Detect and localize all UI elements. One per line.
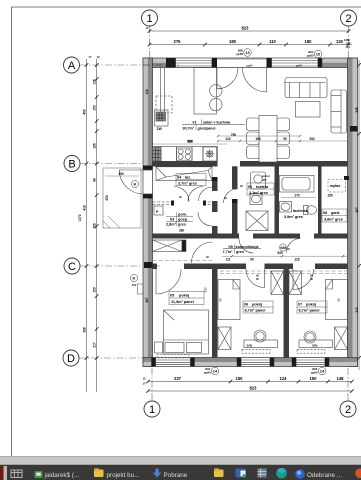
red window sliver <box>0 466 4 480</box>
svg-text:gres: gres <box>178 223 186 227</box>
interior wall V4 <box>318 166 322 238</box>
stool room07 <box>304 331 316 343</box>
left dim line outer <box>86 59 88 392</box>
top dim line segments <box>150 44 353 46</box>
svg-text:pp90: pp90 <box>311 370 318 374</box>
terrace <box>103 168 141 228</box>
wylaz hatch <box>328 180 346 193</box>
svg-text:180: 180 <box>229 39 237 44</box>
jamb blocks bottom wall <box>151 358 329 367</box>
grid line 2 top <box>348 26 350 60</box>
svg-text:110: 110 <box>132 283 137 287</box>
exterior wall left <box>143 58 153 367</box>
firefox icon <box>295 469 305 479</box>
svg-text:1: 1 <box>146 13 152 25</box>
DIMENSION CHAINS <box>87 31 360 392</box>
window tag circle top 2 <box>307 50 322 58</box>
door room07 <box>293 269 314 290</box>
grid line 2 bottom <box>347 368 349 401</box>
light window sliver <box>4 466 8 480</box>
folder icon 1 <box>94 468 104 477</box>
ticks right chain <box>357 63 361 67</box>
dining chairs left column <box>247 118 260 159</box>
K symbol terrace <box>131 180 138 187</box>
taskbar background <box>0 465 361 480</box>
svg-text:252: 252 <box>309 137 315 141</box>
svg-text:823: 823 <box>242 26 250 31</box>
door corridor to gard <box>287 239 301 253</box>
island stool 1 <box>210 85 222 97</box>
svg-text:2,8m²: 2,8m² <box>166 223 177 227</box>
radiator room07 dashed <box>297 350 325 354</box>
svg-text:450: 450 <box>82 109 86 115</box>
grid bubble 2 bottom <box>340 401 356 417</box>
svg-text:30: 30 <box>337 298 341 302</box>
svg-text:wyłaz: wyłaz <box>329 184 340 188</box>
svg-text:90: 90 <box>250 258 254 262</box>
kitchen island <box>194 68 217 115</box>
svg-text:368: 368 <box>82 327 86 333</box>
ticks left outer chain <box>85 63 89 67</box>
stool room06 <box>254 330 266 342</box>
svg-text:13: 13 <box>245 50 250 55</box>
svg-text:pokój: pokój <box>252 303 262 307</box>
label room06 <box>243 301 273 313</box>
svg-text:418: 418 <box>82 205 86 211</box>
coffee table <box>296 102 321 118</box>
label room02 <box>247 183 274 195</box>
svg-text:pom.: pom. <box>178 213 187 217</box>
label room04 <box>176 174 206 186</box>
window bottom strip <box>0 456 361 465</box>
svg-text:8,7m² panel: 8,7m² panel <box>299 309 320 313</box>
interior wall H1 right <box>240 161 348 167</box>
svg-text:363: 363 <box>187 140 193 144</box>
svg-text:jaidarek$ (...: jaidarek$ (... <box>44 472 80 479</box>
svg-text:8,7m² panel: 8,7m² panel <box>245 309 266 313</box>
window tag circle bottom 2 <box>311 367 326 375</box>
balcony door left leaf <box>217 68 238 89</box>
svg-text:124: 124 <box>280 376 288 381</box>
svg-text:2: 2 <box>345 404 351 416</box>
sofa 2-seat vertical <box>331 90 347 133</box>
window W1 top kitchen <box>176 58 213 67</box>
door codes <box>179 184 313 281</box>
svg-text:367: 367 <box>355 207 359 213</box>
grid line C <box>80 265 160 267</box>
wardrobe room06 <box>271 271 284 295</box>
kitchen sink <box>203 147 217 161</box>
INTERIOR DIMS <box>105 64 359 312</box>
grid bubble C <box>64 258 80 274</box>
svg-text:7,7m²: 7,7m² <box>223 250 234 254</box>
svg-text:pp90: pp90 <box>204 370 211 374</box>
dining chairs right column <box>277 118 290 159</box>
svg-text:toaleta: toaleta <box>256 185 269 189</box>
svg-text:310: 310 <box>355 307 359 313</box>
label room08 <box>322 209 347 222</box>
ticks left inner chain <box>95 63 99 67</box>
exterior wall bottom <box>143 358 358 367</box>
svg-text:1: 1 <box>149 404 155 416</box>
svg-text:gaz.: gaz. <box>262 179 267 182</box>
svg-text:17: 17 <box>142 382 146 386</box>
svg-text:01: 01 <box>193 121 197 125</box>
svg-text:118: 118 <box>145 89 149 94</box>
svg-text:1370: 1370 <box>78 214 82 221</box>
edge round icon <box>276 468 287 479</box>
svg-text:170: 170 <box>294 194 300 198</box>
svg-text:B: B <box>68 159 75 171</box>
svg-text:445: 445 <box>355 107 359 113</box>
svg-text:salon + kuchnia: salon + kuchnia <box>203 121 231 125</box>
interior wall V6 between rooms 06 07 <box>284 264 290 358</box>
svg-text:projekt bu...: projekt bu... <box>107 472 140 479</box>
svg-text:6M: 6M <box>280 245 286 250</box>
duct lines left <box>160 68 162 115</box>
svg-text:ZW: ZW <box>157 127 163 131</box>
svg-text:gard.: gard. <box>331 211 340 215</box>
svg-text:08: 08 <box>323 211 327 215</box>
terrace door opening left wall <box>143 170 152 194</box>
grid bubble A <box>64 57 80 73</box>
label room01 <box>182 120 245 131</box>
TASKBAR <box>0 456 361 480</box>
window bottom room07 <box>296 358 325 366</box>
grid line B <box>80 163 150 165</box>
M symbol corridor <box>279 244 286 251</box>
svg-text:pp60: pp60 <box>247 64 253 67</box>
desk room06 <box>244 340 278 348</box>
label room07 <box>297 301 327 313</box>
partition 03 04 dashed <box>153 202 213 205</box>
svg-text:250: 250 <box>105 195 109 201</box>
washbasin bath2 <box>280 202 292 213</box>
label bath2 <box>284 209 309 219</box>
svg-text:11,5m² panel: 11,5m² panel <box>171 300 194 304</box>
svg-text:3,7m² gres: 3,7m² gres <box>178 181 197 185</box>
grid line A <box>80 64 352 66</box>
svg-text:gres: gres <box>236 250 244 254</box>
svg-text:K: K <box>133 276 136 281</box>
door room05 arc in room <box>156 269 181 294</box>
window bottom room05 <box>156 358 191 366</box>
svg-text:467: 467 <box>145 297 149 303</box>
svg-text:C: C <box>68 261 76 273</box>
svg-text:07: 07 <box>298 303 302 307</box>
door room05 arc in corridor <box>192 242 213 263</box>
grid app icon <box>258 469 267 478</box>
ticks bottom chain 823 <box>146 389 150 393</box>
door hall to room03 <box>198 212 212 226</box>
svg-text:03: 03 <box>170 218 174 222</box>
stove burners <box>177 148 193 160</box>
terrace door arc <box>119 170 143 194</box>
toilet bath2 <box>304 206 317 215</box>
svg-text:276: 276 <box>174 39 182 44</box>
door hall to room04 <box>199 187 213 201</box>
svg-text:150: 150 <box>310 376 318 381</box>
jamb blocks left wall <box>143 166 153 269</box>
right dim line <box>358 60 360 370</box>
fixture ZW on left wall <box>155 110 169 126</box>
nightstand room05 <box>155 342 163 353</box>
window bottom room06 <box>241 358 270 366</box>
ticks top chain 823 <box>148 29 152 33</box>
window tag circle bottom 1 <box>204 367 219 375</box>
interior wall H3 bedrooms top <box>153 264 348 270</box>
drain marker left wall <box>138 284 144 294</box>
svg-text:17: 17 <box>88 55 92 59</box>
small 17 offsets <box>88 26 350 386</box>
wardrobe room06 bottom <box>218 327 231 350</box>
svg-text:302: 302 <box>204 287 208 293</box>
washbasin room02 <box>250 194 262 205</box>
grid bubble 2 top <box>341 10 357 26</box>
svg-text:180: 180 <box>305 39 313 44</box>
svg-text:gres/panel: gres/panel <box>198 127 216 131</box>
svg-text:30: 30 <box>219 298 223 302</box>
grid bubble 1 top <box>142 10 158 26</box>
interior wall V1 <box>212 181 218 358</box>
svg-text:10: 10 <box>316 52 321 57</box>
svg-text:120: 120 <box>336 39 344 44</box>
window W2 top living <box>272 58 319 67</box>
start keyboard icon <box>11 470 22 478</box>
svg-text:D: D <box>67 353 75 365</box>
interior wall V2 <box>232 166 238 238</box>
bed room05 <box>164 310 209 354</box>
desk room07 <box>299 340 333 348</box>
svg-text:15: 15 <box>142 377 146 381</box>
svg-text:30,7m²: 30,7m² <box>183 127 195 131</box>
svg-text:237: 237 <box>174 376 182 381</box>
clipped red icon right <box>355 469 361 479</box>
svg-text:98: 98 <box>93 178 97 182</box>
top dim line 823 <box>150 30 349 32</box>
bed room06 <box>218 280 240 320</box>
svg-text:14: 14 <box>213 369 218 374</box>
svg-text:780: 780 <box>231 133 237 137</box>
svg-text:3,9m² gres: 3,9m² gres <box>284 215 303 219</box>
fridge dashed <box>156 96 172 113</box>
svg-text:pokój: pokój <box>179 294 189 298</box>
svg-text:150: 150 <box>93 105 97 111</box>
grid line D <box>79 357 300 359</box>
grid bubble 1 bottom <box>144 401 160 417</box>
svg-text:159: 159 <box>327 194 333 198</box>
svg-text:pp60: pp60 <box>307 53 314 57</box>
interior wall V3 <box>275 166 280 238</box>
svg-text:łazienka: łazienka <box>293 209 309 213</box>
svg-text:168: 168 <box>255 137 261 141</box>
exterior wall right <box>348 58 358 367</box>
dining table <box>259 116 277 163</box>
boiler room02 <box>251 172 266 189</box>
bathtub room04 <box>156 167 212 181</box>
door room06 <box>246 269 265 288</box>
download arrow icon <box>153 469 161 478</box>
partition door left leaf <box>174 187 189 202</box>
svg-text:118: 118 <box>294 258 299 262</box>
svg-text:09: 09 <box>229 245 233 249</box>
grid line 1 top <box>149 26 151 60</box>
svg-text:pokój: pokój <box>306 303 316 307</box>
ticks bottom chain segments <box>146 380 150 384</box>
interior wall H1 left kitchen <box>153 162 218 167</box>
partition door right leaf <box>188 187 203 202</box>
radiator room06 dashed <box>242 350 270 354</box>
washer P room03 <box>154 206 163 215</box>
svg-text:530: 530 <box>277 251 283 255</box>
balcony door opening top <box>217 58 267 67</box>
svg-text:25B: 25B <box>312 344 318 348</box>
svg-text:823: 823 <box>250 385 258 390</box>
grid bubble B <box>64 156 80 172</box>
svg-text:14: 14 <box>320 369 325 374</box>
jamb blocks top wall <box>166 58 322 68</box>
bottom dim line segments <box>148 381 352 383</box>
svg-text:148: 148 <box>337 376 345 381</box>
svg-text:266: 266 <box>93 223 97 229</box>
word icon <box>236 469 247 478</box>
wardrobe room07 bottom <box>335 327 348 350</box>
interior wall H2 <box>153 234 348 239</box>
svg-text:06: 06 <box>244 303 248 307</box>
svg-text:gosp.: gosp. <box>178 218 188 222</box>
svg-text:150: 150 <box>93 287 97 293</box>
fridge grid <box>153 147 162 161</box>
grid bubble D <box>63 350 79 366</box>
ticks top chain segments <box>148 43 152 47</box>
label room09 <box>223 244 262 254</box>
bathtub bath2 <box>280 176 315 193</box>
svg-text:Pobrane: Pobrane <box>164 472 188 479</box>
roof slope dashed lines <box>153 261 348 274</box>
svg-text:05: 05 <box>170 294 174 298</box>
grid line A over wall <box>143 64 180 66</box>
radiator room05 dashed <box>157 355 189 359</box>
balcony door right leaf <box>243 68 267 92</box>
svg-text:110: 110 <box>225 137 230 141</box>
label kociol <box>262 174 270 182</box>
svg-text:Odebrane ...: Odebrane ... <box>307 472 342 479</box>
svg-text:pp60: pp60 <box>236 52 243 56</box>
BUILDING <box>143 58 358 367</box>
svg-text:kocioł: kocioł <box>262 174 270 178</box>
svg-text:12: 12 <box>96 55 100 59</box>
GRIDS <box>79 26 352 401</box>
svg-text:110: 110 <box>269 39 276 44</box>
svg-text:111: 111 <box>226 258 231 262</box>
door hall to toaleta <box>224 189 238 203</box>
svg-text:2B: 2B <box>179 229 184 233</box>
svg-text:02: 02 <box>248 185 252 189</box>
left dim line inner <box>96 59 98 392</box>
K symbol left wall <box>130 274 137 287</box>
label room05 <box>169 292 204 305</box>
svg-text:pp60: pp60 <box>296 64 302 67</box>
shower room02 <box>246 211 268 231</box>
island stool 2 <box>210 98 222 110</box>
svg-text:A: A <box>68 60 76 72</box>
left chain rotated labels <box>78 79 96 348</box>
grid line 1 bottom <box>151 368 153 401</box>
svg-text:K: K <box>134 182 137 187</box>
sofa 3-seat <box>284 78 327 98</box>
wardrobe room07 <box>289 271 302 295</box>
svg-text:150: 150 <box>236 376 244 381</box>
svg-text:217: 217 <box>93 342 97 348</box>
svg-text:90: 90 <box>283 137 287 141</box>
svg-text:łaz.: łaz. <box>185 175 191 179</box>
svg-text:17: 17 <box>145 26 149 30</box>
putty icon <box>35 471 43 478</box>
dim 363 counter <box>153 140 228 144</box>
svg-text:2: 2 <box>345 13 351 25</box>
corridor wardrobe <box>153 240 187 252</box>
exterior wall top <box>143 58 358 68</box>
svg-text:25B: 25B <box>247 344 253 348</box>
bed room07 <box>326 280 348 320</box>
svg-text:3,8m² gres: 3,8m² gres <box>324 218 343 222</box>
svg-text:186: 186 <box>93 143 97 149</box>
FURNITURE <box>103 68 348 359</box>
kitchen counter <box>153 147 218 162</box>
bottom dim line 823 <box>148 390 352 392</box>
svg-text:2,1m² gres: 2,1m² gres <box>249 191 268 195</box>
svg-text:135: 135 <box>93 79 97 85</box>
folder icon 2 <box>214 468 224 477</box>
door toaleta to corridor <box>239 239 254 254</box>
label room03 <box>166 212 193 233</box>
svg-text:komunikacja: komunikacja <box>236 245 260 249</box>
window tag circle top 1 <box>236 49 251 57</box>
svg-text:150: 150 <box>118 172 124 176</box>
DOORS <box>119 68 313 294</box>
svg-text:170: 170 <box>345 45 350 49</box>
